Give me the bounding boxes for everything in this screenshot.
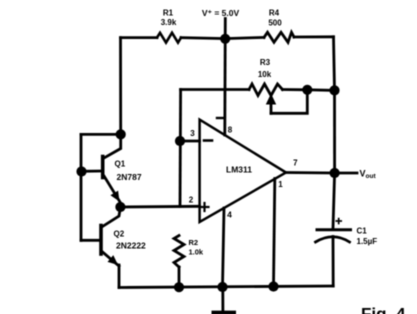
wire vertical x180 from R3 elbow down through pin3 node to pin2 wire: [179, 90, 182, 207]
svg-text:1.5µF: 1.5µF: [357, 237, 378, 246]
wire R3 right lead to wiper node: [283, 88, 308, 91]
transistor Q1 collector lead: [104, 134, 121, 158]
wire right vertical from R3 node down to output node: [333, 90, 336, 173]
capacitor C1 top plate: [317, 228, 351, 231]
wire pin 3 lead into op-amp: [180, 140, 200, 143]
wire pin 2 wire from node to op-amp: [120, 205, 199, 208]
transistor Q2 emitter lead with arrow: [103, 252, 120, 266]
resistor R4: [264, 32, 294, 42]
transistor Q2 collector lead: [103, 207, 121, 227]
wire C1 bottom lead down to rail corner: [332, 237, 335, 287]
wire collector loop top from left line to Q1 collector node: [81, 133, 121, 136]
wire output node to Vout label: [335, 172, 357, 175]
svg-text:V⁺ = 5.0V: V⁺ = 5.0V: [202, 8, 240, 18]
wire R2 bottom lead: [178, 267, 181, 287]
capacitor C1 polarity plus: [336, 220, 341, 222]
wire wiper return loop: [271, 90, 307, 114]
resistor R1: [157, 33, 181, 43]
minus sign inverting input: [204, 139, 212, 142]
node R3 right / wiper junction dot: [302, 85, 312, 95]
wire top rail left segment from corner to R1: [121, 36, 158, 39]
ground symbol: [221, 287, 224, 311]
svg-text:Fig. 4: Fig. 4: [361, 305, 406, 314]
svg-text:3.9k: 3.9k: [161, 18, 177, 27]
wire Q1 base lead: [82, 170, 102, 173]
wire R3 left feed: down from elbow and across to R3: [181, 88, 249, 91]
node right rail junction dot: [329, 85, 339, 95]
wire left base line vertical: [80, 134, 83, 240]
stray dash above op-amp: [217, 117, 223, 119]
svg-text:7: 7: [293, 159, 298, 168]
wire pin 4 line down to ground rail: [223, 208, 225, 287]
wire R1 right lead to V+ node: [181, 38, 225, 39]
resistor R2 vertical body: [174, 236, 184, 268]
svg-text:R1: R1: [163, 9, 174, 18]
node Q1 base junction dot: [76, 166, 86, 176]
node Q1 collector junction dot: [116, 129, 126, 139]
wire right vertical from top-right corner down to R3 node: [334, 37, 335, 91]
wire bottom rail: [119, 286, 333, 288]
svg-text:8: 8: [228, 126, 233, 135]
wire Q2 emitter down to bottom rail: [118, 265, 121, 288]
resistor R3 10k potentiometer body: [249, 84, 283, 96]
wire output from apex to output node: [286, 171, 335, 174]
svg-text:10k: 10k: [258, 70, 272, 79]
svg-text:2N2222: 2N2222: [116, 241, 146, 251]
node Q1 emitter / Q2 collector junction dot: [115, 202, 125, 212]
potentiometer R3 wiper arrow: [270, 101, 273, 113]
node output junction dot: [330, 168, 340, 178]
svg-text:500: 500: [268, 19, 282, 28]
node pin1 bottom junction dot: [268, 281, 278, 291]
svg-text:1: 1: [278, 180, 283, 189]
node R2 bottom junction dot: [174, 282, 184, 292]
plus sign noninverting input: [201, 206, 209, 208]
wire left vertical from top rail corner down to Q1 collector node: [119, 38, 122, 135]
transistor Q1 emitter lead with arrow: [104, 176, 120, 203]
op-amp U1 LM311 triangle: [200, 120, 286, 222]
node pin3 junction dot: [175, 136, 185, 146]
svg-text:4: 4: [227, 210, 232, 220]
capacitor C1 bottom curved plate: [316, 237, 350, 242]
wire R4 right lead to top-right corner: [294, 35, 334, 38]
svg-text:R4: R4: [269, 9, 280, 18]
transistor Q2 base bar: [99, 226, 103, 255]
node ground junction dot: [217, 282, 227, 292]
wire pin8 line from V+ node down to op-amp top edge: [223, 39, 226, 135]
svg-text:C1: C1: [357, 227, 368, 236]
svg-text:2N787: 2N787: [117, 172, 142, 182]
wire Q2 base lead: [81, 239, 100, 242]
svg-text:1.0k: 1.0k: [189, 248, 204, 257]
transistor Q1 base bar: [101, 157, 105, 178]
wire V+ node to R4: [225, 37, 264, 38]
wire C1 top lead from output node: [333, 173, 335, 228]
svg-text:Q1: Q1: [115, 160, 126, 169]
wire pin 1 line down to bottom rail: [274, 179, 275, 287]
svg-text:3: 3: [190, 129, 195, 138]
wire R3 node to right rail node: [307, 88, 334, 91]
node V+ junction dot: [220, 34, 230, 44]
svg-text:LM311: LM311: [226, 165, 252, 175]
svg-text:R2: R2: [189, 238, 199, 247]
svg-text:R3: R3: [260, 58, 271, 67]
svg-text:2: 2: [189, 196, 194, 205]
svg-text:Vout: Vout: [360, 169, 377, 181]
wire V+ label stub down to node: [224, 19, 227, 39]
svg-text:Q2: Q2: [114, 230, 125, 239]
